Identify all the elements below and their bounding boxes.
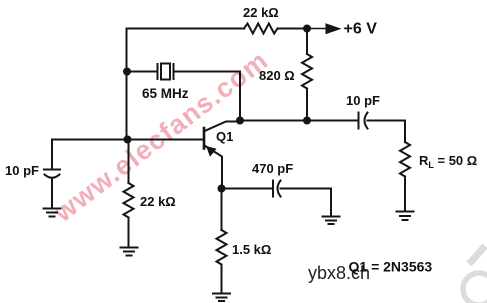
ground right of 470pF [323,217,340,225]
svg-text:Q1: Q1 [216,129,233,144]
svg-text:Q1 = 2N3563: Q1 = 2N3563 [349,259,433,275]
svg-text:22 kΩ: 22 kΩ [140,194,176,209]
capacitor 10pF left flat plate [44,169,60,171]
wire base [128,139,203,141]
wire emitter node to 470pF [222,188,273,190]
node collector left [236,117,244,125]
resistor 820 ohm [302,54,312,88]
wire 820 top lead [306,29,308,55]
svg-text:+6 V: +6 V [344,21,378,38]
wire left vertical [126,29,128,140]
wire 470pF right lead [281,189,332,217]
resistor 22k left [124,183,134,217]
node collector 820 [303,117,311,125]
svg-text:65 MHz: 65 MHz [142,86,189,101]
transistor Q1 base bar [203,128,206,149]
capacitor 10pF output curved plate [365,113,368,129]
wire crystal left lead [127,71,157,73]
svg-text:10 pF: 10 pF [5,163,39,178]
watermark www.elecfans.com [48,45,274,229]
wire crystal right lead [175,71,241,73]
ground under 1.5k [213,294,230,302]
ground under 22k [121,248,138,256]
capacitor 10pF left curved plate [45,175,60,178]
svg-text:470 pF: 470 pF [252,161,293,176]
resistor RL 50 ohm [400,142,410,176]
wire 820 bottom lead [306,89,308,121]
capacitor 10pF output flat plate [358,113,360,129]
wire crystal node down to collector rail [239,72,241,121]
wire left cap bottom lead [51,178,53,208]
wire collector rail [240,120,358,122]
node crystal junction [123,68,131,76]
wire output cap to RL [368,121,406,143]
logo circle bottom right [463,246,487,303]
svg-text:1.5 kΩ: 1.5 kΩ [232,242,271,257]
capacitor 470pF curved plate [278,181,281,197]
wire top horizontal left segment [127,28,245,30]
svg-text:820 Ω: 820 Ω [259,68,295,83]
wire 1.5k top lead [221,189,223,231]
ground under RL [397,212,414,221]
resistor R 22k top [244,24,277,34]
wire 1.5k bottom lead [221,265,223,294]
crystal Y1 body [161,64,170,80]
wire 22k left top lead [128,140,130,184]
svg-text:10 pF: 10 pF [346,93,380,108]
node emitter [218,185,226,193]
wire 22k left bottom lead [128,218,130,248]
transistor Q1 emitter [205,146,223,189]
transistor Q1 collector [205,122,241,132]
wire RL bottom lead [404,177,406,212]
capacitor 470pF flat plate [272,181,274,197]
supply arrow to +6V [307,28,326,30]
ground under left cap [44,209,61,217]
wire emitter node left branch [52,139,127,141]
svg-text:22 kΩ: 22 kΩ [243,5,279,20]
wire top horizontal right segment [278,28,308,30]
svg-text:RL = 50 Ω: RL = 50 Ω [419,153,477,170]
crystal Y1 plates [158,64,174,79]
node base main [124,136,132,144]
node top junction [303,25,311,33]
resistor 1.5k [217,230,227,265]
wire left cap top lead [51,140,53,169]
transistor Q1 emitter arrow [206,146,217,157]
